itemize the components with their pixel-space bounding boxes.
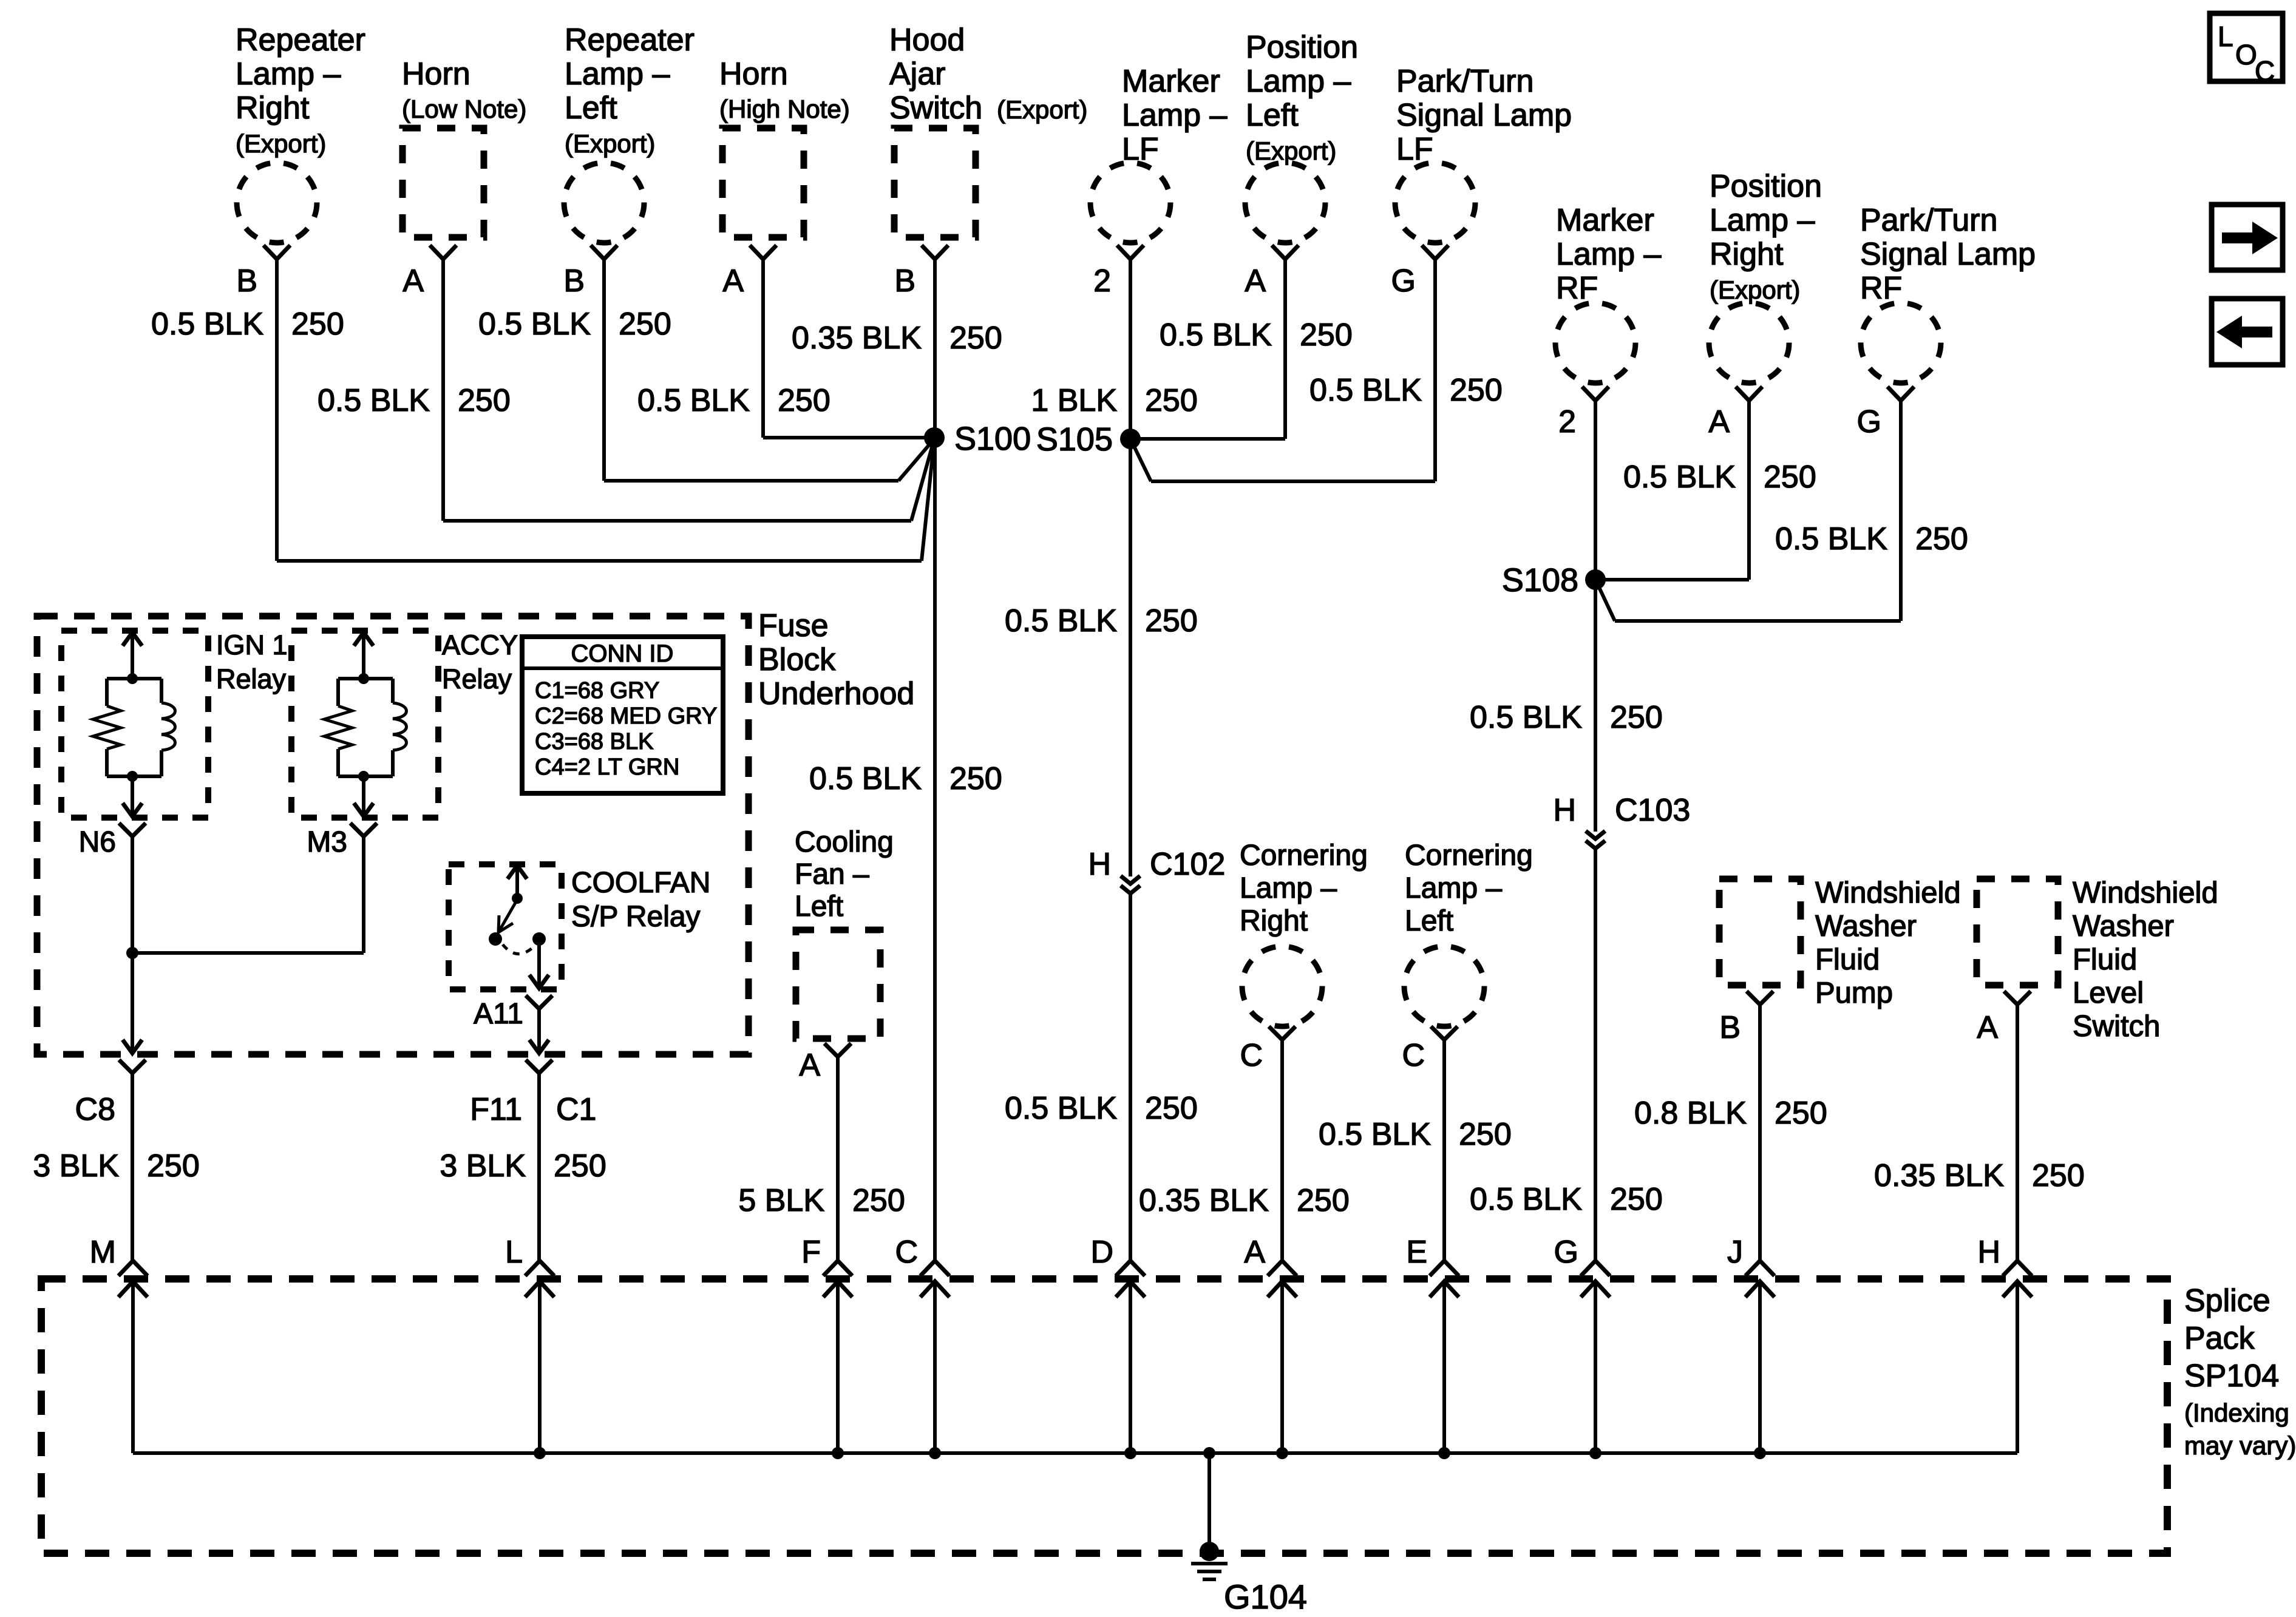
- svg-text:ACCY: ACCY: [442, 629, 518, 660]
- level switch pin A fork: [2004, 991, 2031, 1005]
- svg-text:0.5 BLK: 0.5 BLK: [151, 307, 263, 342]
- svg-text:2: 2: [1093, 263, 1111, 299]
- svg-text:Lamp –: Lamp –: [1710, 203, 1815, 238]
- svg-text:250: 250: [949, 761, 1002, 796]
- svg-text:(Export): (Export): [236, 129, 326, 158]
- svg-text:C103: C103: [1615, 793, 1690, 828]
- junction dot on N6 wire: [126, 947, 138, 959]
- svg-text:Left: Left: [565, 90, 617, 126]
- right turn arrow icon: [2212, 205, 2283, 270]
- svg-text:250: 250: [291, 307, 344, 342]
- svg-text:A: A: [722, 263, 744, 299]
- svg-text:0.8 BLK: 0.8 BLK: [1634, 1096, 1747, 1131]
- bus junction dot: [1589, 1447, 1601, 1459]
- splice pack pin L: [525, 1261, 554, 1276]
- horn high pin A fork: [750, 245, 776, 259]
- svg-text:Lamp –: Lamp –: [236, 56, 341, 92]
- bus junction dot: [832, 1447, 844, 1459]
- svg-text:Windshield: Windshield: [1815, 876, 1961, 909]
- svg-text:3 BLK: 3 BLK: [440, 1148, 526, 1184]
- cooling fan left box: [796, 930, 880, 1039]
- splice pack pin G: [1581, 1261, 1610, 1276]
- wire horn high A to S100: [761, 259, 765, 438]
- svg-text:G: G: [1554, 1235, 1578, 1270]
- position lamp left pin A fork: [1272, 245, 1299, 259]
- svg-text:250: 250: [852, 1183, 905, 1218]
- svg-text:250: 250: [778, 383, 830, 418]
- svg-text:0.5 BLK: 0.5 BLK: [1005, 1091, 1117, 1126]
- svg-text:250: 250: [458, 383, 511, 418]
- splice pack pin M: [118, 1261, 148, 1276]
- svg-text:Washer: Washer: [1815, 910, 1917, 943]
- svg-text:Windshield: Windshield: [2073, 876, 2218, 909]
- svg-text:COOLFAN: COOLFAN: [571, 867, 710, 899]
- svg-text:0.5 BLK: 0.5 BLK: [1470, 1182, 1582, 1217]
- park/turn LF pin G fork: [1422, 245, 1449, 259]
- svg-text:Relay: Relay: [442, 663, 512, 694]
- horn high note box: [722, 128, 804, 237]
- IGN 1 relay pin N6 fork: [119, 823, 146, 836]
- svg-text:C102: C102: [1150, 847, 1225, 882]
- svg-text:Relay: Relay: [216, 663, 287, 694]
- splice pack ground bus: [133, 1451, 2017, 1455]
- marker lamp RF pin 2 fork: [1582, 387, 1609, 401]
- svg-text:A: A: [1977, 1010, 1998, 1045]
- svg-text:250: 250: [2032, 1158, 2085, 1193]
- svg-text:250: 250: [1610, 700, 1663, 735]
- cornering lamp right bulb: [1242, 946, 1322, 1026]
- svg-text:L: L: [505, 1235, 523, 1270]
- svg-text:Horn: Horn: [719, 56, 788, 92]
- svg-text:250: 250: [619, 307, 671, 342]
- svg-text:C: C: [1402, 1038, 1425, 1073]
- position lamp right bulb: [1709, 303, 1789, 383]
- wire N6 down to fuse block edge: [131, 836, 134, 1053]
- svg-text:250: 250: [949, 320, 1002, 356]
- svg-text:C: C: [2255, 55, 2275, 87]
- repeater lamp right pin B fork: [263, 245, 290, 259]
- svg-text:D: D: [1090, 1235, 1113, 1270]
- svg-text:Left: Left: [1246, 98, 1299, 133]
- wire cornering right C to splice A: [1280, 1040, 1284, 1261]
- position lamp right pin A fork: [1736, 387, 1762, 401]
- svg-text:N6: N6: [79, 826, 116, 858]
- svg-text:S100: S100: [954, 421, 1031, 457]
- svg-text:Block: Block: [758, 642, 836, 677]
- position lamp left bulb: [1245, 163, 1325, 243]
- svg-text:(High Note): (High Note): [719, 95, 850, 123]
- fuse block pin F11/C1 fork: [526, 1060, 552, 1073]
- svg-text:Cooling: Cooling: [795, 826, 894, 858]
- wire repeater right B to S100: [275, 259, 279, 561]
- svg-text:C8: C8: [75, 1092, 115, 1127]
- wire position left A to S105: [1283, 259, 1287, 439]
- svg-text:Lamp –: Lamp –: [1240, 872, 1337, 904]
- svg-text:Lamp –: Lamp –: [1122, 98, 1228, 133]
- svg-text:M3: M3: [307, 826, 347, 858]
- svg-text:Fan –: Fan –: [795, 858, 869, 890]
- wire C8 to splice M: [131, 1073, 134, 1261]
- svg-text:Position: Position: [1246, 30, 1358, 65]
- svg-text:0.5 BLK: 0.5 BLK: [1309, 373, 1422, 408]
- svg-text:Switch: Switch: [2073, 1010, 2160, 1043]
- wire M3 to junction with N6 wire: [362, 836, 365, 953]
- svg-text:0.5 BLK: 0.5 BLK: [1470, 700, 1582, 735]
- svg-text:A: A: [1244, 1235, 1265, 1270]
- fuse block underhood box: [37, 616, 749, 1054]
- wire repeater left B to S100: [602, 259, 606, 481]
- svg-text:may vary): may vary): [2184, 1431, 2296, 1460]
- connector C102 arrow: [1121, 876, 1140, 884]
- bus junction dot: [1754, 1447, 1766, 1459]
- svg-text:C: C: [895, 1235, 918, 1270]
- COOLFAN pin A11 fork: [526, 995, 552, 1009]
- ACCY relay coil circuit: [362, 632, 365, 679]
- wire hood ajar B down through S100 to splice C: [933, 259, 937, 1261]
- svg-text:B: B: [1719, 1010, 1741, 1045]
- svg-text:M: M: [90, 1235, 116, 1270]
- svg-text:250: 250: [1145, 383, 1198, 418]
- bus junction dot: [1276, 1447, 1288, 1459]
- fuse block pin C8 fork: [119, 1060, 146, 1073]
- bus junction dot: [1124, 1447, 1136, 1459]
- svg-text:0.5 BLK: 0.5 BLK: [478, 307, 591, 342]
- connector C102 chevron: [1121, 886, 1140, 893]
- svg-text:Splice: Splice: [2184, 1283, 2271, 1318]
- svg-text:Cornering: Cornering: [1405, 839, 1533, 872]
- svg-text:250: 250: [1610, 1182, 1663, 1217]
- svg-text:250: 250: [1764, 459, 1816, 495]
- svg-text:Signal Lamp: Signal Lamp: [1860, 237, 2036, 272]
- wire A11 down to fuse block edge: [537, 1009, 541, 1053]
- svg-text:C1: C1: [556, 1092, 596, 1127]
- marker lamp RF bulb: [1555, 303, 1635, 383]
- svg-text:Right: Right: [1710, 237, 1784, 272]
- svg-text:F: F: [801, 1235, 821, 1270]
- wire cooling fan A to splice F: [836, 1057, 840, 1261]
- LOC legend box: [2210, 13, 2283, 81]
- svg-text:(Indexing: (Indexing: [2184, 1398, 2289, 1427]
- marker lamp LF pin 2 fork: [1117, 245, 1144, 259]
- splice pack pin D: [1116, 1261, 1145, 1276]
- wire cornering left C to splice E: [1442, 1040, 1446, 1261]
- splice S108: [1585, 569, 1606, 590]
- wire horn low A to S100: [441, 259, 445, 521]
- svg-text:Switch: Switch: [889, 90, 982, 126]
- svg-text:0.5 BLK: 0.5 BLK: [1775, 521, 1887, 557]
- svg-text:B: B: [236, 263, 257, 299]
- svg-text:SP104: SP104: [2184, 1358, 2279, 1394]
- svg-text:(Export): (Export): [997, 95, 1087, 124]
- svg-text:F11: F11: [470, 1092, 522, 1127]
- svg-text:S105: S105: [1036, 421, 1113, 458]
- svg-text:0.5 BLK: 0.5 BLK: [318, 383, 430, 418]
- svg-text:Ajar: Ajar: [889, 56, 945, 92]
- svg-text:Fluid: Fluid: [2073, 943, 2137, 976]
- svg-text:250: 250: [1775, 1096, 1827, 1131]
- svg-text:Left: Left: [795, 890, 843, 923]
- bus junction dot: [1438, 1447, 1450, 1459]
- splice pack pin A: [1268, 1261, 1297, 1276]
- splice pack pin E: [1430, 1261, 1459, 1276]
- wire park/turn RF G to S108: [1899, 401, 1903, 621]
- svg-text:RF: RF: [1556, 271, 1598, 306]
- svg-text:Park/Turn: Park/Turn: [1860, 203, 1997, 238]
- svg-text:A: A: [1245, 263, 1266, 299]
- svg-text:C2=68 MED GRY: C2=68 MED GRY: [535, 703, 717, 729]
- svg-text:1 BLK: 1 BLK: [1031, 383, 1117, 418]
- svg-text:0.35 BLK: 0.35 BLK: [1139, 1183, 1269, 1218]
- svg-text:5 BLK: 5 BLK: [738, 1183, 824, 1218]
- IGN 1 relay box: [61, 631, 208, 818]
- bus junction dot: [534, 1447, 546, 1459]
- wire position right A to S108: [1747, 401, 1751, 580]
- svg-text:0.35 BLK: 0.35 BLK: [792, 320, 922, 356]
- svg-text:Lamp –: Lamp –: [565, 56, 670, 92]
- repeater lamp right (Export) bulb: [237, 163, 317, 243]
- connector C103 arrow: [1586, 831, 1605, 839]
- svg-text:250: 250: [1297, 1183, 1350, 1218]
- svg-text:Washer: Washer: [2073, 910, 2174, 943]
- svg-text:Fuse: Fuse: [758, 608, 829, 643]
- svg-text:C1=68 GRY: C1=68 GRY: [535, 678, 659, 703]
- svg-text:Marker: Marker: [1122, 64, 1220, 99]
- svg-text:C: C: [1240, 1038, 1263, 1073]
- svg-text:Signal Lamp: Signal Lamp: [1396, 98, 1572, 133]
- svg-text:Right: Right: [236, 90, 310, 126]
- IGN 1 relay coil circuit: [131, 632, 134, 679]
- svg-text:(Low Note): (Low Note): [402, 95, 526, 123]
- svg-text:250: 250: [554, 1148, 606, 1184]
- CONN ID table: [522, 637, 723, 793]
- svg-text:Fluid: Fluid: [1815, 943, 1880, 976]
- ACCY relay pin M3 fork: [350, 823, 377, 836]
- wire marker LF below C102 to splice D: [1129, 893, 1132, 1261]
- repeater lamp left pin B fork: [591, 245, 617, 259]
- left turn arrow icon: [2212, 299, 2283, 365]
- svg-text:Left: Left: [1405, 905, 1453, 937]
- park/turn RF pin G fork: [1887, 387, 1914, 401]
- splice pack pin H: [2003, 1261, 2032, 1276]
- svg-text:250: 250: [1145, 603, 1198, 639]
- marker lamp LF bulb: [1090, 163, 1170, 243]
- svg-text:250: 250: [1145, 1091, 1198, 1126]
- svg-text:E: E: [1406, 1235, 1427, 1270]
- svg-text:A: A: [402, 263, 424, 299]
- svg-text:H: H: [1977, 1235, 2000, 1270]
- splice pack pin J: [1745, 1261, 1775, 1276]
- svg-text:C3=68 BLK: C3=68 BLK: [535, 729, 653, 754]
- svg-text:250: 250: [1300, 317, 1353, 353]
- bus junction dot: [929, 1447, 941, 1459]
- windshield washer fluid level switch box: [1977, 879, 2058, 985]
- svg-text:J: J: [1727, 1235, 1743, 1270]
- svg-text:C4=2 LT GRN: C4=2 LT GRN: [535, 754, 679, 780]
- svg-text:Pump: Pump: [1815, 977, 1893, 1009]
- svg-text:Cornering: Cornering: [1240, 839, 1368, 872]
- svg-text:Repeater: Repeater: [236, 22, 365, 58]
- svg-text:G: G: [1391, 263, 1416, 299]
- cornering lamp right pin C fork: [1269, 1026, 1296, 1040]
- svg-text:S108: S108: [1502, 562, 1578, 598]
- svg-text:Lamp –: Lamp –: [1556, 237, 1662, 272]
- ACCY relay box: [291, 631, 438, 818]
- svg-text:RF: RF: [1860, 271, 1902, 306]
- svg-text:CONN ID: CONN ID: [571, 640, 674, 667]
- svg-text:G: G: [1857, 404, 1881, 439]
- svg-text:(Export): (Export): [565, 129, 655, 158]
- bus junction dot: [1203, 1447, 1215, 1459]
- wire F11 to splice L: [537, 1073, 541, 1261]
- svg-text:A: A: [799, 1048, 820, 1083]
- wire park/turn LF G to S105: [1433, 259, 1437, 481]
- svg-text:Hood: Hood: [889, 22, 965, 58]
- splice S100: [924, 427, 945, 448]
- cooling fan pin A fork: [824, 1043, 851, 1057]
- svg-text:2: 2: [1558, 404, 1576, 439]
- park/turn lamp RF bulb: [1861, 303, 1941, 383]
- COOLFAN relay switch: [515, 866, 519, 898]
- svg-text:0.5 BLK: 0.5 BLK: [1319, 1117, 1431, 1152]
- svg-text:Lamp –: Lamp –: [1405, 872, 1502, 904]
- svg-text:Pack: Pack: [2184, 1321, 2255, 1356]
- svg-text:0.35 BLK: 0.35 BLK: [1874, 1158, 2004, 1193]
- svg-text:S/P Relay: S/P Relay: [571, 901, 701, 933]
- svg-text:0.5 BLK: 0.5 BLK: [637, 383, 750, 418]
- svg-text:Horn: Horn: [402, 56, 470, 92]
- svg-text:0.5 BLK: 0.5 BLK: [809, 761, 922, 796]
- svg-text:O: O: [2235, 39, 2257, 70]
- horn low pin A fork: [430, 245, 457, 259]
- svg-text:3 BLK: 3 BLK: [33, 1148, 119, 1184]
- splice pack pin C: [920, 1261, 949, 1276]
- svg-text:250: 250: [1459, 1117, 1512, 1152]
- svg-text:B: B: [563, 263, 585, 299]
- svg-text:Underhood: Underhood: [758, 676, 914, 711]
- svg-text:0.5 BLK: 0.5 BLK: [1623, 459, 1736, 495]
- splice pack pin F: [823, 1261, 852, 1276]
- svg-text:Level: Level: [2073, 977, 2144, 1009]
- wire level switch A to splice H: [2016, 1005, 2019, 1261]
- connector C103 chevron: [1586, 841, 1605, 849]
- windshield washer fluid pump box: [1719, 879, 1801, 985]
- hood ajar pin B fork: [922, 245, 948, 259]
- svg-text:B: B: [894, 263, 915, 299]
- hood ajar switch box: [894, 128, 976, 237]
- cornering lamp left pin C fork: [1431, 1026, 1458, 1040]
- splice S105: [1120, 429, 1141, 449]
- svg-text:H: H: [1553, 793, 1576, 828]
- svg-text:Marker: Marker: [1556, 203, 1654, 238]
- svg-text:250: 250: [1915, 521, 1968, 557]
- svg-text:(Export): (Export): [1710, 276, 1800, 304]
- ground G104 symbol: [1200, 1542, 1219, 1561]
- svg-text:A: A: [1708, 404, 1730, 439]
- svg-text:IGN 1: IGN 1: [216, 629, 288, 660]
- svg-text:0.5 BLK: 0.5 BLK: [1005, 603, 1117, 639]
- splice pack SP104 box: [41, 1279, 2167, 1553]
- svg-text:Lamp –: Lamp –: [1246, 64, 1351, 99]
- svg-text:Repeater: Repeater: [565, 22, 695, 58]
- svg-text:250: 250: [147, 1148, 200, 1184]
- svg-text:Position: Position: [1710, 169, 1822, 204]
- svg-text:A11: A11: [474, 998, 523, 1030]
- svg-text:G104: G104: [1224, 1578, 1307, 1616]
- washer pump pin B fork: [1747, 991, 1773, 1005]
- wire washer pump B to splice J: [1758, 1005, 1762, 1261]
- park/turn lamp LF bulb: [1395, 163, 1475, 243]
- svg-text:250: 250: [1450, 373, 1503, 408]
- wire marker RF 2 down to C103: [1594, 401, 1597, 832]
- repeater lamp left (Export) bulb: [564, 163, 644, 243]
- COOLFAN S/P relay box: [449, 864, 562, 989]
- wire marker RF below C103 to splice G: [1594, 849, 1597, 1261]
- wire marker LF 2 down to C102: [1129, 259, 1132, 876]
- cornering lamp left bulb: [1404, 946, 1484, 1026]
- svg-text:0.5 BLK: 0.5 BLK: [1160, 317, 1272, 353]
- svg-text:Park/Turn: Park/Turn: [1396, 64, 1533, 99]
- horn low note box: [402, 128, 484, 237]
- svg-text:(Export): (Export): [1246, 137, 1336, 165]
- svg-text:L: L: [2218, 21, 2233, 52]
- wire bus to ground G104: [1207, 1453, 1211, 1548]
- svg-text:Right: Right: [1240, 905, 1308, 937]
- svg-text:H: H: [1088, 847, 1111, 882]
